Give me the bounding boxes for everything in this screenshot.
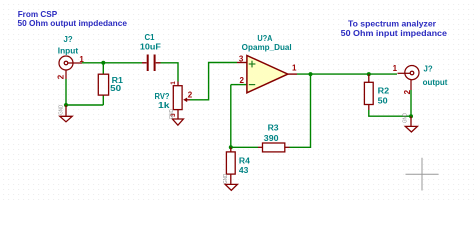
svg-text:output: output	[423, 78, 448, 87]
wire: feedback from output down to R3 right	[290, 74, 311, 147]
svg-text:2: 2	[240, 76, 245, 85]
comment text "From CSP / 50 Ohm output impdedance"	[18, 9, 128, 28]
wire: op-amp - input horizontal	[231, 84, 247, 86]
svg-text:390: 390	[264, 134, 279, 143]
svg-text:To spectrum analyzer: To spectrum analyzer	[348, 18, 437, 28]
svg-text:43: 43	[239, 166, 249, 175]
wire: feedback vertical down from - input	[230, 85, 232, 148]
svg-text:J?: J?	[64, 35, 73, 44]
svg-text:Input: Input	[58, 46, 79, 55]
svg-text:GND: GND	[58, 104, 64, 114]
wire: R1 bottom down to gnd rail	[102, 95, 104, 105]
svg-text:1k: 1k	[158, 101, 170, 110]
svg-text:J?: J?	[424, 64, 433, 73]
wire: J1 pin2 down to gnd junction	[65, 79, 67, 105]
junction at feedback node	[229, 145, 233, 149]
svg-text:U?A: U?A	[257, 34, 272, 43]
wire: feedback node to R3 left	[231, 146, 258, 148]
svg-text:R2: R2	[378, 87, 390, 96]
svg-text:10uF: 10uF	[140, 43, 161, 52]
op-amp - marker	[249, 84, 255, 86]
svg-text:GND: GND	[169, 109, 175, 119]
wire: op-amp output to J2	[297, 73, 397, 75]
comment text "To spectrum analyzer / 50 Ohm input impedance"	[341, 18, 448, 38]
svg-text:GND: GND	[223, 173, 229, 183]
resistor R2	[364, 74, 373, 110]
svg-text:50 Ohm input impedance: 50 Ohm input impedance	[341, 28, 448, 38]
ground symbol at J2	[405, 116, 417, 132]
junction at R1 top	[101, 61, 105, 65]
op-amp + marker	[249, 61, 256, 68]
wire: branch down to R1 top	[102, 63, 104, 74]
wire: R2 bottom to J2 ground rail	[369, 110, 411, 116]
capacitor C1	[148, 55, 155, 72]
ground symbol at R4	[225, 184, 237, 190]
junction at output/feedback	[309, 72, 313, 76]
ground symbol at J1	[60, 105, 72, 122]
svg-text:50 Ohm output impdedance: 50 Ohm output impdedance	[18, 18, 128, 28]
svg-text:50: 50	[110, 84, 122, 93]
svg-text:Opamp_Dual: Opamp_Dual	[242, 43, 292, 52]
op-amp U?A pin 1 stub (output)	[288, 73, 297, 75]
svg-text:3: 3	[239, 55, 244, 64]
ground symbol at RV bottom	[172, 119, 183, 125]
svg-text:2: 2	[188, 91, 193, 100]
svg-text:C1: C1	[145, 33, 156, 42]
wire: C1 right to pot top	[161, 63, 179, 82]
svg-text:1: 1	[79, 55, 84, 64]
svg-text:1: 1	[170, 81, 177, 85]
op-amp U?A pin 3 stub	[237, 62, 247, 64]
svg-text:50: 50	[378, 96, 389, 105]
svg-text:RV?: RV?	[155, 92, 170, 101]
resistor R4	[226, 147, 235, 184]
resistor R1	[98, 74, 108, 95]
svg-text:1: 1	[292, 64, 297, 73]
wire: pot wiper to op-amp + input	[190, 63, 237, 100]
svg-text:2: 2	[56, 74, 65, 79]
junction at output/R2	[367, 72, 371, 76]
wire: gnd rail horizontal (J1 pin2 area to R1 bottom)	[66, 104, 103, 106]
svg-text:GND: GND	[402, 113, 408, 123]
wire: J1 pin1 to C1 (top wire left)	[82, 62, 142, 64]
svg-text:R4: R4	[239, 156, 251, 165]
RV wiper arrow	[183, 98, 187, 103]
junction at gnd rail left	[64, 103, 68, 107]
potentiometer RV?	[173, 82, 190, 119]
connector J1 (Conn_Coaxial)	[59, 56, 82, 79]
op-amp U?A triangle	[247, 56, 288, 93]
crosshair marker bottom right	[406, 158, 439, 191]
wire: J2 pin2 down to ground junction	[410, 90, 412, 116]
svg-text:1: 1	[393, 64, 398, 73]
resistor R3	[258, 143, 290, 152]
svg-text:2: 2	[403, 89, 412, 94]
svg-text:R3: R3	[268, 123, 280, 132]
connector J2 (Conn_Coaxial, output)	[398, 66, 420, 91]
junction at J2 ground	[409, 114, 413, 118]
